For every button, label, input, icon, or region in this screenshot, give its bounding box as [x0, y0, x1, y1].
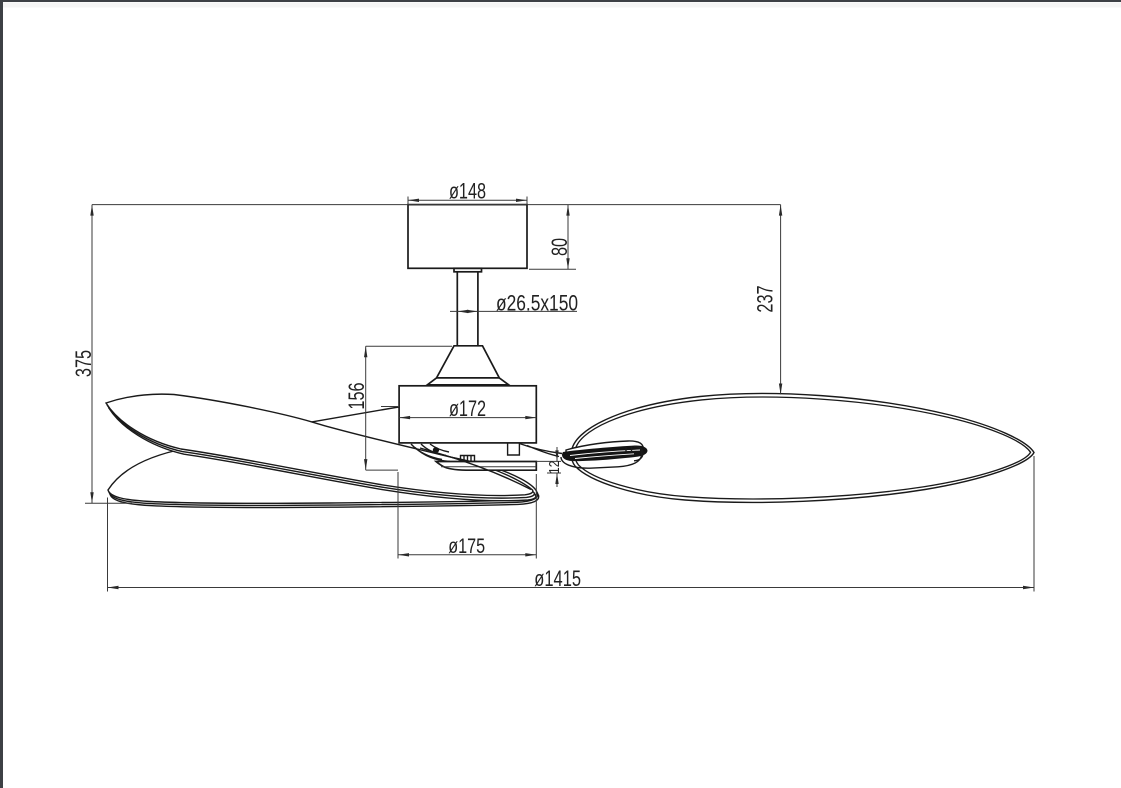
motor bell cone	[427, 346, 508, 385]
dim ø148 line	[408, 199, 527, 201]
right blade arm dark bar	[562, 445, 647, 461]
dim 375 line	[91, 205, 93, 504]
dim ø175 arrows	[398, 553, 409, 556]
bell cone rim line	[437, 377, 500, 379]
upper-left blade	[106, 394, 533, 495]
dim 12 line	[556, 447, 558, 487]
svg-text:ø1415: ø1415	[534, 567, 581, 592]
lower-left blade thickness line 2	[110, 446, 539, 507]
dim 156 bottom extension	[366, 469, 398, 471]
upper-left blade thickness line 2	[109, 399, 536, 500]
lower-left blade	[108, 442, 537, 503]
bottom plate inner line	[441, 466, 536, 468]
svg-text:ø172: ø172	[449, 397, 486, 422]
arm highlight streaks	[570, 450, 640, 459]
right sweep curves to arm	[519, 444, 562, 457]
dim 375 bottom extension	[85, 502, 132, 504]
svg-text:ø148: ø148	[449, 179, 486, 204]
canopy	[408, 205, 527, 269]
motor housing box	[399, 386, 536, 443]
dim ø26.5x150 line	[450, 310, 577, 312]
ribbed foot	[458, 456, 477, 462]
dim ø172 arrows	[399, 416, 410, 419]
left bracket dark knob	[433, 447, 439, 453]
svg-text:237: 237	[753, 285, 778, 312]
arm right cap	[626, 447, 643, 461]
left border bar	[0, 0, 3, 788]
svg-text:12: 12	[546, 461, 563, 474]
svg-text:375: 375	[71, 350, 96, 377]
dim 375 arrows	[90, 205, 93, 216]
upper-left blade thickness line 1	[108, 397, 535, 498]
right blade inner outline	[575, 397, 1031, 499]
dim 12 extensions	[536, 461, 561, 473]
downrod	[457, 272, 478, 346]
dim 156 line	[365, 346, 367, 470]
svg-text:156: 156	[344, 382, 369, 409]
dim ø175 extensions	[398, 472, 536, 559]
svg-text:ø175: ø175	[448, 534, 485, 558]
dim ø1415 arrows	[108, 586, 119, 589]
dim 80 arrows	[566, 205, 569, 216]
dim 237 line	[780, 205, 782, 395]
right blade arm bottom lobe	[561, 449, 642, 468]
leader segment at motor left	[381, 406, 399, 408]
dim 80 line	[567, 205, 569, 270]
faint band under top border	[3, 3, 1121, 8]
right blade arm upper wedge	[566, 441, 644, 453]
dim ø172 line	[399, 417, 536, 419]
top border bar	[0, 0, 1121, 2]
dim 156 top extension	[366, 345, 452, 347]
dim 237 arrows	[779, 205, 782, 216]
left blade bracket arcs	[411, 444, 450, 462]
dim ø26.5x150 arrows	[457, 310, 468, 313]
dim ø148 extension ticks	[408, 197, 527, 205]
dim ø1415 extensions	[108, 456, 1035, 592]
svg-text:80: 80	[547, 238, 572, 256]
dim 156 arrows	[364, 346, 367, 357]
bottom plate	[436, 462, 536, 471]
dim ø1415 line	[108, 587, 1035, 589]
right blade outer outline	[571, 393, 1034, 502]
dim ø148 arrows	[408, 199, 419, 202]
canopy collar	[454, 268, 482, 272]
svg-text:ø26.5x150: ø26.5x150	[496, 292, 578, 316]
center notch	[508, 443, 520, 455]
dim 80 bottom extension	[529, 268, 576, 270]
blade near edge over plate	[420, 448, 531, 490]
dim 12 arrows	[555, 450, 558, 461]
upper-left blade far edge line to motor	[312, 407, 399, 422]
long top extension line	[92, 204, 781, 206]
lower-left blade thickness line 1	[109, 444, 538, 505]
dim ø175 line	[398, 554, 536, 556]
